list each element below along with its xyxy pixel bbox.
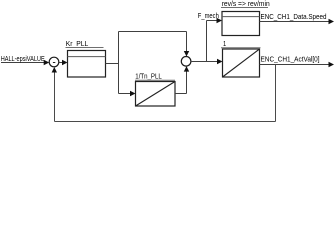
svg-text:ENC_CH1_Data.Speed: ENC_CH1_Data.Speed — [261, 12, 327, 21]
wire branch vertical — [118, 32, 120, 94]
wire P-path down into sum2 — [184, 32, 189, 57]
wire sum1 to Kr_PLL — [59, 60, 68, 65]
wire I-path bottom horizontal — [119, 91, 136, 96]
svg-text:1: 1 — [223, 39, 226, 48]
conversion block rev/s => rev/min — [221, 0, 270, 36]
integrator block 1/Tn_PLL — [135, 71, 175, 106]
integrator block 1 — [221, 39, 261, 77]
wire sum2 output to integrator 1 — [191, 59, 223, 64]
summing junction 2 — [181, 57, 191, 67]
gain block Kr_PLL — [66, 39, 106, 77]
wire ENC_CH1_ActVal[0] output — [260, 62, 335, 67]
wire HALL input — [1, 60, 49, 65]
wire Kr_PLL output to branch node — [106, 63, 120, 65]
svg-text:ENC_CH1_ActVal[0]: ENC_CH1_ActVal[0] — [261, 55, 320, 64]
summing junction 1 — [49, 57, 59, 67]
svg-text:Kr_PLL: Kr_PLL — [66, 39, 89, 48]
wire integrator output up into sum2 — [175, 66, 189, 93]
wire F_mech branch — [207, 18, 223, 62]
wire ENC_CH1_Data.Speed output — [260, 19, 335, 24]
wire P-path top horizontal — [119, 31, 187, 33]
svg-text:rev/s => rev/min: rev/s => rev/min — [222, 0, 270, 8]
svg-text:HALL-epsiVALUE: HALL-epsiVALUE — [1, 54, 45, 63]
svg-text:1/Tn_PLL: 1/Tn_PLL — [135, 71, 162, 80]
svg-text:F_mech: F_mech — [198, 11, 219, 20]
wire feedback path — [52, 65, 276, 122]
